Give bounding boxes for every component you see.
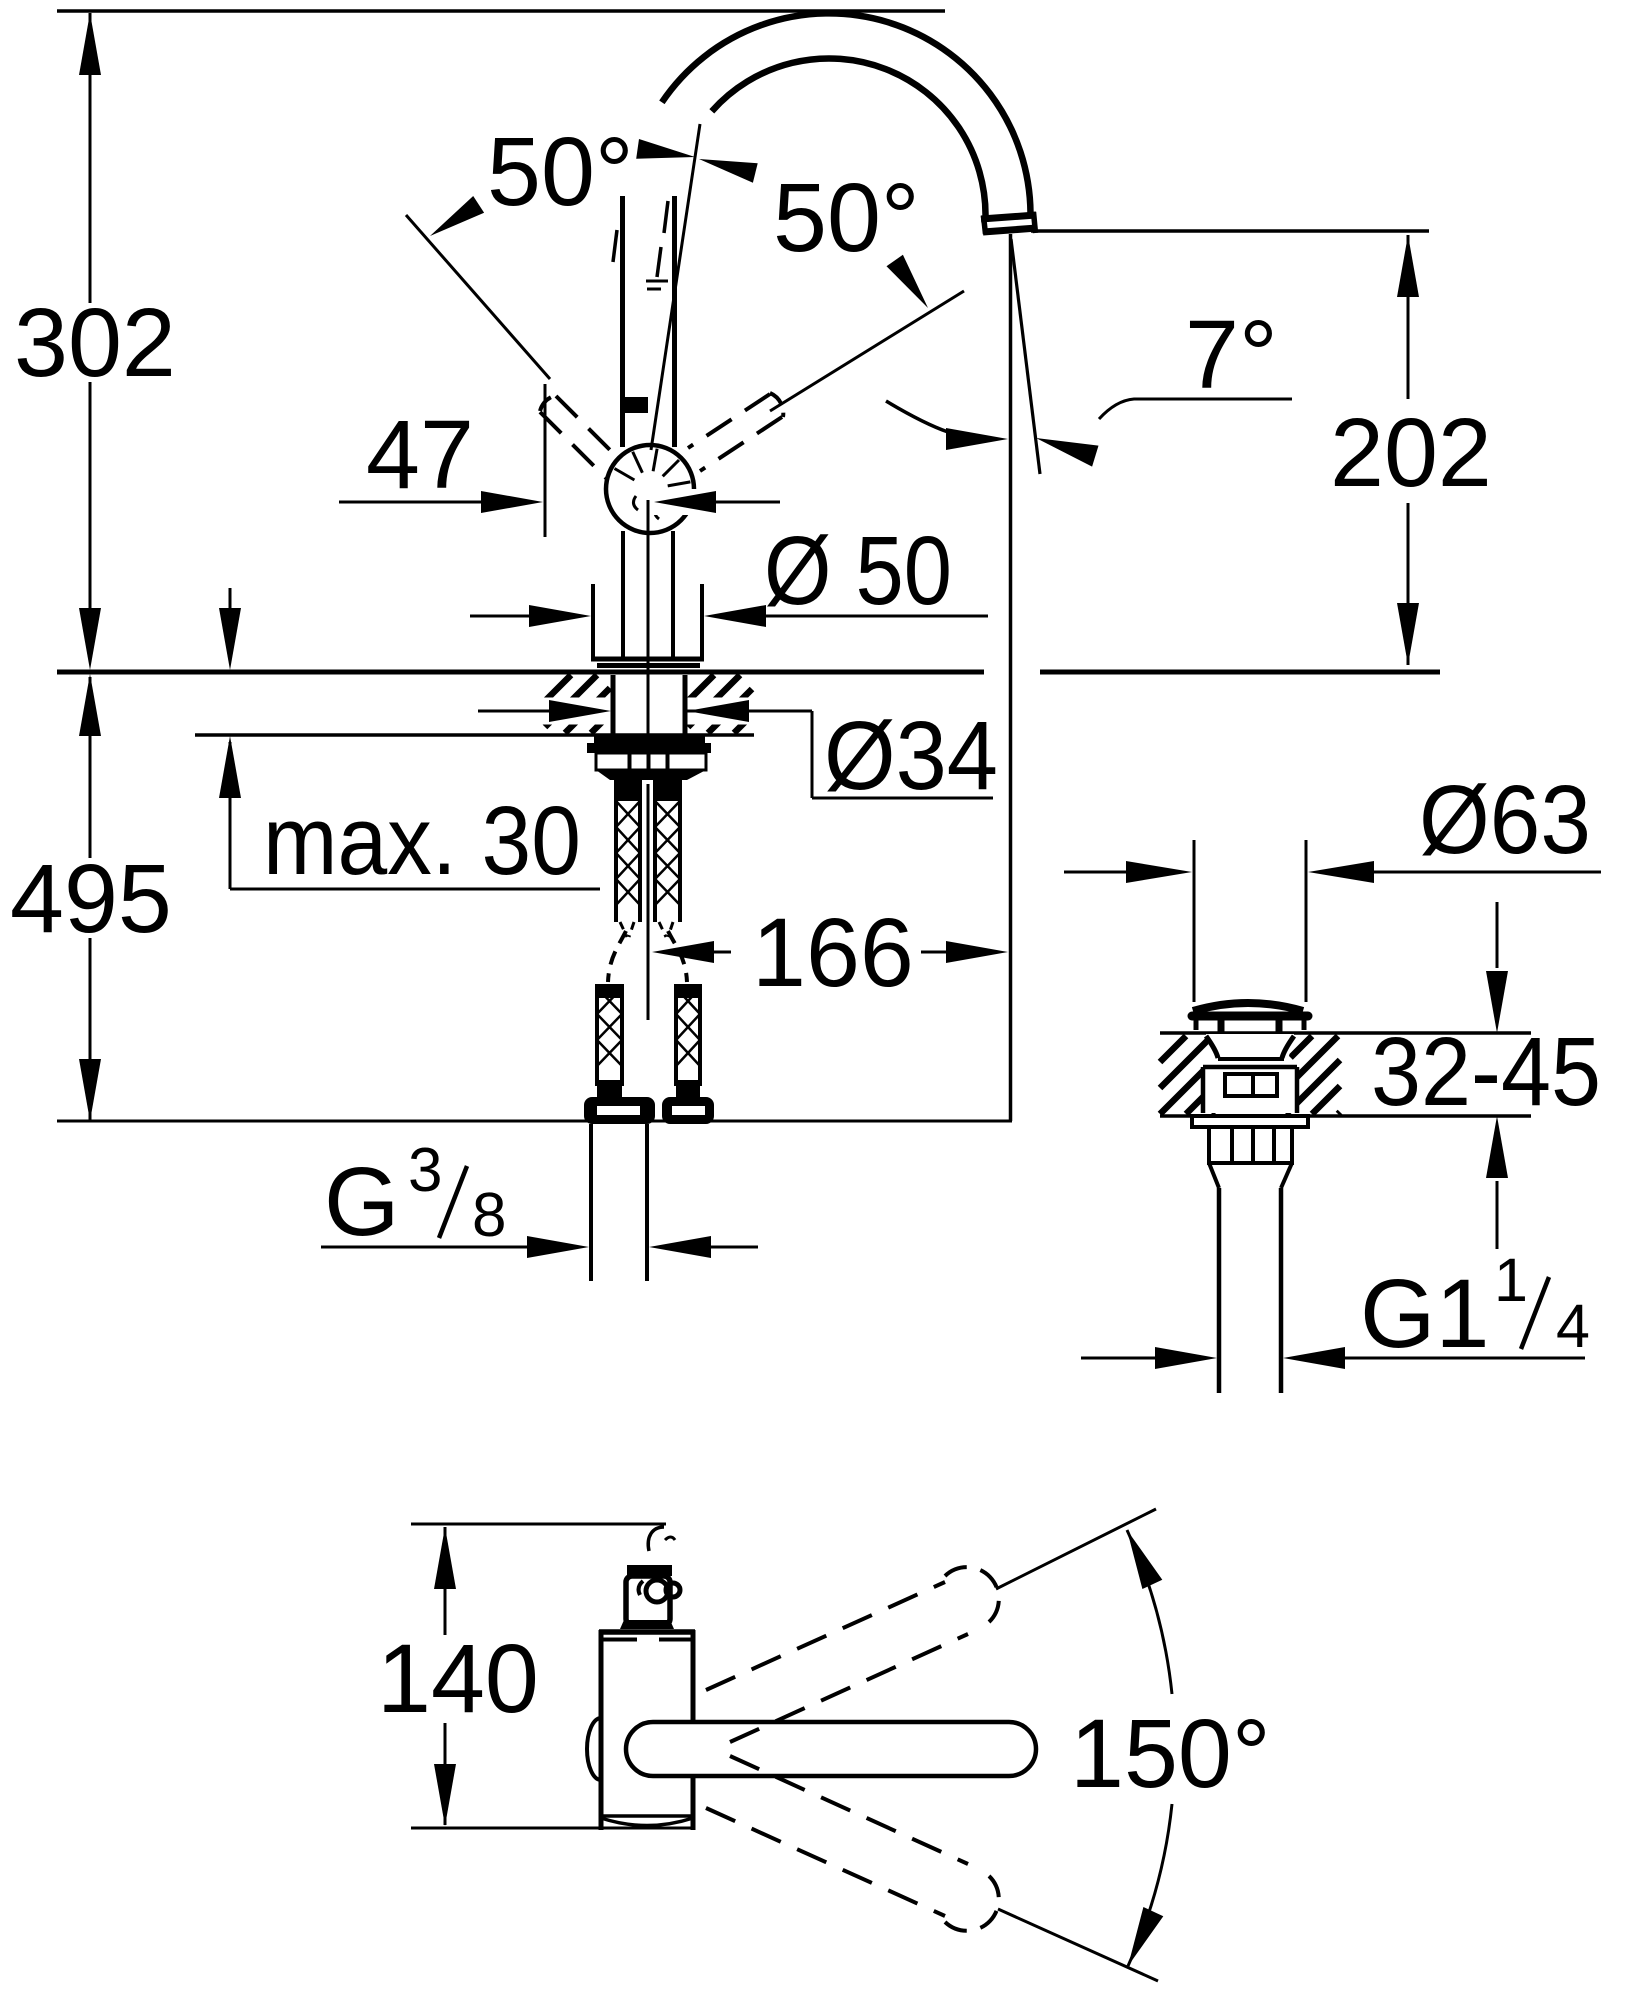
svg-text:150°: 150° xyxy=(1070,1699,1271,1808)
label max. 30 xyxy=(263,786,581,895)
drain tailpipe left wall xyxy=(1217,1188,1222,1393)
arrow G38 left xyxy=(527,1236,589,1258)
label D34 xyxy=(824,701,998,810)
counter hatch left xyxy=(545,675,610,733)
top view cap circles xyxy=(639,1580,680,1602)
arrow 166 left xyxy=(652,941,714,963)
arrow 495 top xyxy=(79,674,101,736)
lever left 50deg dashed edge 2 xyxy=(540,412,611,483)
svg-text:8: 8 xyxy=(472,1181,506,1250)
arrow D50 right xyxy=(704,605,766,627)
dim line D63 left xyxy=(1064,871,1130,874)
drain locknut xyxy=(1209,1127,1292,1163)
dim line 47 left xyxy=(339,501,486,504)
shank right wall xyxy=(683,675,688,734)
dim line 32-45 upper xyxy=(1496,902,1499,968)
arrow 50deg right xyxy=(887,255,929,308)
handle lower dashed edge 2 xyxy=(730,1756,968,1864)
svg-text:166: 166 xyxy=(752,898,914,1007)
drain counter top line xyxy=(1160,1031,1531,1035)
spout outer arc xyxy=(662,13,1031,213)
arrow 47 right xyxy=(654,491,716,513)
arrow D34 right xyxy=(687,700,749,722)
handle upper dashed edge 2 xyxy=(730,1634,968,1742)
stream vertical line xyxy=(1009,234,1013,1121)
arc 150deg lower xyxy=(1128,1804,1172,1966)
arrow 7deg left xyxy=(946,428,1008,450)
arrow G114 left xyxy=(1155,1347,1217,1369)
svg-text:1: 1 xyxy=(1494,1246,1528,1314)
top view cartridge cap xyxy=(620,1565,674,1629)
arc 150deg upper xyxy=(1127,1530,1172,1694)
flex hose curve right xyxy=(668,931,687,982)
dim line D34 left xyxy=(478,710,553,713)
extension line 47 xyxy=(544,384,547,537)
svg-text:50°: 50° xyxy=(773,163,920,272)
lever left 50deg dashed edge 1 xyxy=(556,396,627,467)
stud right tip dashes xyxy=(659,922,673,937)
arrow max30 lower xyxy=(219,736,241,798)
label D50 xyxy=(764,516,952,625)
dim line D50 left xyxy=(470,615,535,618)
svg-text:Ø34: Ø34 xyxy=(824,701,998,810)
dim line 140 upper xyxy=(444,1527,447,1635)
spout outlet face line 2 xyxy=(983,212,1037,234)
svg-text:202: 202 xyxy=(1330,398,1492,507)
label 302 xyxy=(14,288,176,397)
supply pipe right wall xyxy=(645,1124,649,1281)
label 7deg xyxy=(1185,300,1278,409)
dim line G38 left xyxy=(321,1246,532,1249)
handle lower dashed edge 1 xyxy=(706,1808,945,1916)
label 202 xyxy=(1330,398,1492,507)
body tube right line xyxy=(672,196,677,447)
svg-text:7°: 7° xyxy=(1185,300,1278,409)
faucet centerline lower xyxy=(647,784,650,1020)
lever hidden dash b xyxy=(646,281,668,289)
arrow max30 upper xyxy=(219,608,241,670)
label G114 xyxy=(1360,1246,1590,1368)
label G38 xyxy=(324,1136,506,1256)
pivot ball center hooks xyxy=(633,496,659,519)
drain body through counter xyxy=(1201,1034,1299,1113)
drain tailpipe right wall xyxy=(1279,1188,1284,1393)
spout outlet face line 1 xyxy=(981,215,1036,219)
arrow on lever axis from left xyxy=(636,139,695,159)
dim line 47 right xyxy=(710,501,780,504)
counter hatch right xyxy=(688,675,752,733)
stud left tip dashes xyxy=(620,922,634,937)
svg-text:47: 47 xyxy=(366,400,474,509)
drain counter hatch right xyxy=(1286,1036,1340,1114)
label 50deg right xyxy=(773,163,920,272)
base right line xyxy=(700,584,704,657)
drain overflow window xyxy=(1225,1074,1277,1096)
body tube left line xyxy=(620,196,625,447)
pivot ball radial ticks xyxy=(615,449,691,507)
dim line 166 left tail xyxy=(712,951,731,954)
lever right 50deg dashed cap xyxy=(770,393,783,417)
arrow D34 left xyxy=(549,700,611,722)
handle upper dashed cap xyxy=(945,1567,999,1622)
reference line spout height xyxy=(1031,229,1429,233)
flex hose left lower xyxy=(597,984,622,1097)
dimension line 302/495 vertical xyxy=(89,13,92,1121)
svg-text:302: 302 xyxy=(14,288,176,397)
dim line G38 right xyxy=(706,1246,758,1249)
svg-text:140: 140 xyxy=(377,1624,539,1733)
lever left 50deg dashed cap xyxy=(540,395,557,411)
drain cap dome xyxy=(1192,1003,1308,1016)
arrow 202 top xyxy=(1397,235,1419,297)
label 140 xyxy=(377,1624,539,1733)
arrow D63 right xyxy=(1308,861,1374,883)
halo D34 xyxy=(516,698,760,725)
arrow 150 upper xyxy=(1127,1530,1162,1589)
leader line max30 xyxy=(230,888,600,891)
drain taper xyxy=(1209,1163,1292,1188)
dimension line max.30 xyxy=(229,588,232,889)
arrow 202 bottom xyxy=(1397,603,1419,665)
threaded stud right upper xyxy=(655,779,680,922)
handle upper dashed edge 1 xyxy=(706,1582,945,1690)
svg-text:32-45: 32-45 xyxy=(1371,1017,1601,1126)
screw head right xyxy=(662,1097,714,1124)
threaded stud left upper xyxy=(616,779,640,922)
lever hidden dash a xyxy=(657,201,668,277)
drain cap stem bars xyxy=(1196,1020,1304,1032)
arrow 302 top xyxy=(79,13,101,75)
label 495 xyxy=(10,844,172,953)
arrow 150 lower xyxy=(1128,1907,1163,1966)
countertop top surface line xyxy=(57,670,1440,675)
dim line G114 right xyxy=(1343,1357,1585,1360)
arrow 140 top xyxy=(434,1527,456,1589)
label 47 xyxy=(366,400,474,509)
top view hook mark xyxy=(648,1527,675,1551)
cartridge black mark xyxy=(625,397,648,413)
svg-text:50°: 50° xyxy=(487,117,634,226)
leader 7deg right xyxy=(1099,399,1292,419)
base plate on deck xyxy=(597,663,700,668)
svg-text:max. 30: max. 30 xyxy=(263,786,581,895)
base left line xyxy=(591,584,595,657)
label D63 xyxy=(1419,765,1591,874)
dim line 32-45 lower xyxy=(1496,1181,1499,1249)
svg-text:495: 495 xyxy=(10,844,172,953)
lever right 50deg dashed edge 1 xyxy=(688,394,770,448)
arrow D50 left xyxy=(529,605,591,627)
dim line 140 lower xyxy=(444,1723,447,1825)
angle line 50deg right xyxy=(770,291,964,411)
arrow 47 left xyxy=(481,491,543,513)
arrow 166 right xyxy=(946,941,1008,963)
top reference line (spout max height) xyxy=(57,9,945,13)
arrow 495 bottom xyxy=(79,1059,101,1121)
arrow 50deg left xyxy=(430,196,484,236)
arrow 32-45 upper xyxy=(1486,971,1508,1033)
top view body outline xyxy=(599,1630,695,1830)
mounting nut xyxy=(596,753,706,780)
leader 7deg left xyxy=(886,401,948,432)
dim line D50 right xyxy=(760,615,988,618)
neck right line xyxy=(671,531,675,657)
lever pivot ball circle xyxy=(606,445,694,533)
flex hose curve left xyxy=(608,931,626,982)
top view lower reference line xyxy=(411,1827,693,1830)
lever right 50deg dashed edge 2 xyxy=(700,417,782,471)
arrow D63 left xyxy=(1126,861,1192,883)
lever closed hidden dash left xyxy=(613,230,617,262)
dim line D63 right xyxy=(1370,871,1601,874)
top view upper reference line xyxy=(411,1523,666,1526)
handle lower dashed cap xyxy=(945,1876,999,1931)
base bottom edge xyxy=(591,657,704,662)
dim line 202 xyxy=(1407,235,1410,665)
spout inner arc xyxy=(712,58,986,217)
flex hose right lower xyxy=(676,984,700,1097)
drain counter bottom line xyxy=(1160,1114,1531,1118)
arrow 7deg right xyxy=(1036,438,1099,467)
drain flange below counter xyxy=(1192,1116,1308,1127)
top view spout stub arc xyxy=(587,1718,601,1780)
drain extension line right xyxy=(1305,840,1308,1002)
svg-text:G1: G1 xyxy=(1360,1259,1489,1368)
handle upper axis line xyxy=(996,1509,1156,1589)
neck left line xyxy=(621,531,625,657)
bottom reference line xyxy=(57,1120,1012,1123)
drain counter hatch left xyxy=(1160,1036,1214,1114)
svg-text:3: 3 xyxy=(408,1136,442,1205)
label 150deg xyxy=(1070,1699,1271,1808)
lever axis line xyxy=(651,124,700,450)
svg-text:Ø 50: Ø 50 xyxy=(764,516,952,625)
shank left wall xyxy=(611,675,616,734)
faucet centerline upper xyxy=(647,500,650,734)
dim line G114 left xyxy=(1081,1357,1159,1360)
arrow 140 bottom xyxy=(434,1764,456,1826)
label 166 xyxy=(752,898,914,1007)
handle lower axis line xyxy=(998,1909,1158,1981)
arrow G38 right xyxy=(649,1236,711,1258)
halo 47 xyxy=(650,489,792,515)
label 32-45 xyxy=(1371,1017,1601,1126)
screw head left xyxy=(584,1097,655,1124)
handle solid position xyxy=(626,1722,1036,1776)
arrow 32-45 lower xyxy=(1486,1116,1508,1178)
arrow on lever axis from right xyxy=(699,159,758,183)
countertop bottom line xyxy=(195,733,754,737)
stream tilted line 7deg xyxy=(1011,239,1040,474)
svg-text:G: G xyxy=(324,1147,399,1256)
drain extension line left xyxy=(1193,840,1196,1002)
svg-text:4: 4 xyxy=(1556,1292,1590,1360)
dim line 166 right tail xyxy=(921,951,950,954)
angle line 50deg left xyxy=(406,215,550,379)
arrow G114 right xyxy=(1283,1347,1345,1369)
arrow 302 bottom xyxy=(79,608,101,670)
rubber washer xyxy=(587,735,711,753)
supply pipe left wall xyxy=(589,1124,593,1281)
leader D34 xyxy=(687,711,993,798)
svg-text:Ø63: Ø63 xyxy=(1419,765,1591,874)
label 50deg left xyxy=(487,117,634,226)
